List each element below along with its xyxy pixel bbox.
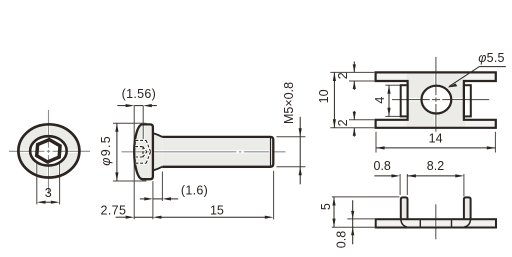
- bend fillet left: [401, 220, 407, 227]
- dimension 3 extension lines: [37, 161, 60, 204]
- dimension 5 extension lines: [332, 197, 400, 227]
- svg-text:(1.6): (1.6): [181, 183, 208, 197]
- dimension 0.8/8.2 extension lines: [400, 174, 464, 197]
- dimension 2 lines: [353, 62, 355, 137]
- svg-text:(1.56): (1.56): [122, 87, 156, 101]
- bend tangent line right: [451, 220, 453, 228]
- svg-text:φ9.5: φ9.5: [99, 135, 113, 166]
- dimension 10 line + arrows: [333, 72, 335, 127]
- right tab fill (side view): [464, 197, 471, 219]
- plate fill (side view): [376, 219, 496, 227]
- svg-text:8.2: 8.2: [427, 159, 444, 173]
- svg-text:0.8: 0.8: [334, 231, 348, 248]
- left tab fill (top view): [401, 85, 408, 116]
- bend fillet right: [465, 220, 471, 227]
- right tab fill (top view): [464, 85, 471, 116]
- neck fill: [153, 133, 162, 170]
- hex socket hidden lines (side view): [135, 140, 150, 163]
- dimension M5x0.8 extension lines: [276, 137, 305, 167]
- dimension 3 arrows: [37, 201, 60, 204]
- right tab stroke (top view): [464, 85, 471, 116]
- left tab stroke (side view): [401, 197, 408, 219]
- svg-text:2: 2: [336, 119, 350, 126]
- plate body fill (H shape): [376, 72, 496, 127]
- dimension 2.75 / 15 bottom line: [116, 216, 266, 218]
- dimension (1.56) extension lines: [134, 106, 143, 220]
- plate body outline stroke: [376, 72, 496, 127]
- head outer circle fill: [18, 124, 79, 177]
- button head outline stroke: [134, 124, 153, 179]
- dimension 4 line + arrows: [388, 85, 390, 116]
- svg-text:0.8: 0.8: [374, 159, 391, 173]
- svg-text:M5×0.8: M5×0.8: [282, 82, 296, 124]
- left tab fill (side view): [401, 197, 408, 219]
- hole phi5.5 stroke: [422, 86, 452, 114]
- flange arm light areas: [377, 74, 407, 81]
- neck curves: [154, 133, 163, 137]
- leader phi5.5: [449, 67, 506, 87]
- svg-text:3: 3: [45, 186, 52, 200]
- crosshair vertical (top view): [392, 57, 489, 132]
- dimension M5x0.8 line + arrows: [299, 117, 301, 185]
- svg-text:2: 2: [336, 72, 350, 79]
- svg-text:φ5.5: φ5.5: [478, 51, 505, 65]
- centerline vertical (bottom view): [434, 204, 437, 239]
- dimension phi9.5 line + arrows: [116, 123, 118, 181]
- plate outline stroke: [376, 219, 496, 227]
- centerline vertical (front view): [48, 110, 50, 194]
- hole phi5.5 fill: [422, 86, 452, 114]
- shaft fill: [162, 137, 273, 167]
- head fill: [134, 124, 153, 179]
- dimension 14 extension lines: [376, 132, 495, 153]
- dimension (1.6) line + arrows: [140, 198, 178, 200]
- shaft outline stroke: [162, 137, 273, 167]
- head outer circle stroke: [18, 124, 79, 177]
- svg-text:10: 10: [317, 89, 331, 103]
- dimension 10 extension lines: [330, 72, 374, 127]
- dimension 5 line + arrows: [333, 197, 335, 227]
- svg-text:4: 4: [373, 97, 387, 104]
- svg-text:15: 15: [210, 203, 224, 217]
- dimension (1.6) extension lines: [153, 172, 163, 220]
- centerline horizontal (side view): [122, 150, 286, 153]
- dimension 14 line + arrows: [376, 147, 495, 149]
- socket ring fill: [30, 136, 67, 165]
- dimension (1.56) line + arrows: [117, 105, 157, 107]
- centerline horizontal (front view): [9, 110, 90, 194]
- dimension 2 extension lines: [349, 81, 374, 120]
- svg-text:14: 14: [429, 131, 443, 145]
- svg-text:5: 5: [319, 203, 333, 210]
- dimension 15 right extension line: [273, 171, 275, 220]
- dimension phi9.5 extension lines: [113, 123, 147, 181]
- socket ring stroke: [30, 136, 67, 165]
- thread chamfer line at shaft end: [269, 138, 272, 166]
- left tab stroke (top view): [401, 85, 408, 116]
- dimension 0.8 thickness extension line: [347, 218, 374, 220]
- crosshair horizontal (top view): [392, 99, 489, 101]
- hex socket (front view): [37, 140, 60, 162]
- dimension 0.8/8.2 line + arrows: [374, 175, 455, 177]
- dimension 0.8 thickness line + arrows: [352, 200, 354, 244]
- bend tangent line left: [419, 220, 421, 228]
- dimension 2 arrows: [353, 64, 356, 135]
- right tab stroke (side view): [464, 197, 471, 219]
- dimension 4 extension lines: [385, 85, 400, 116]
- svg-text:2.75: 2.75: [101, 203, 127, 217]
